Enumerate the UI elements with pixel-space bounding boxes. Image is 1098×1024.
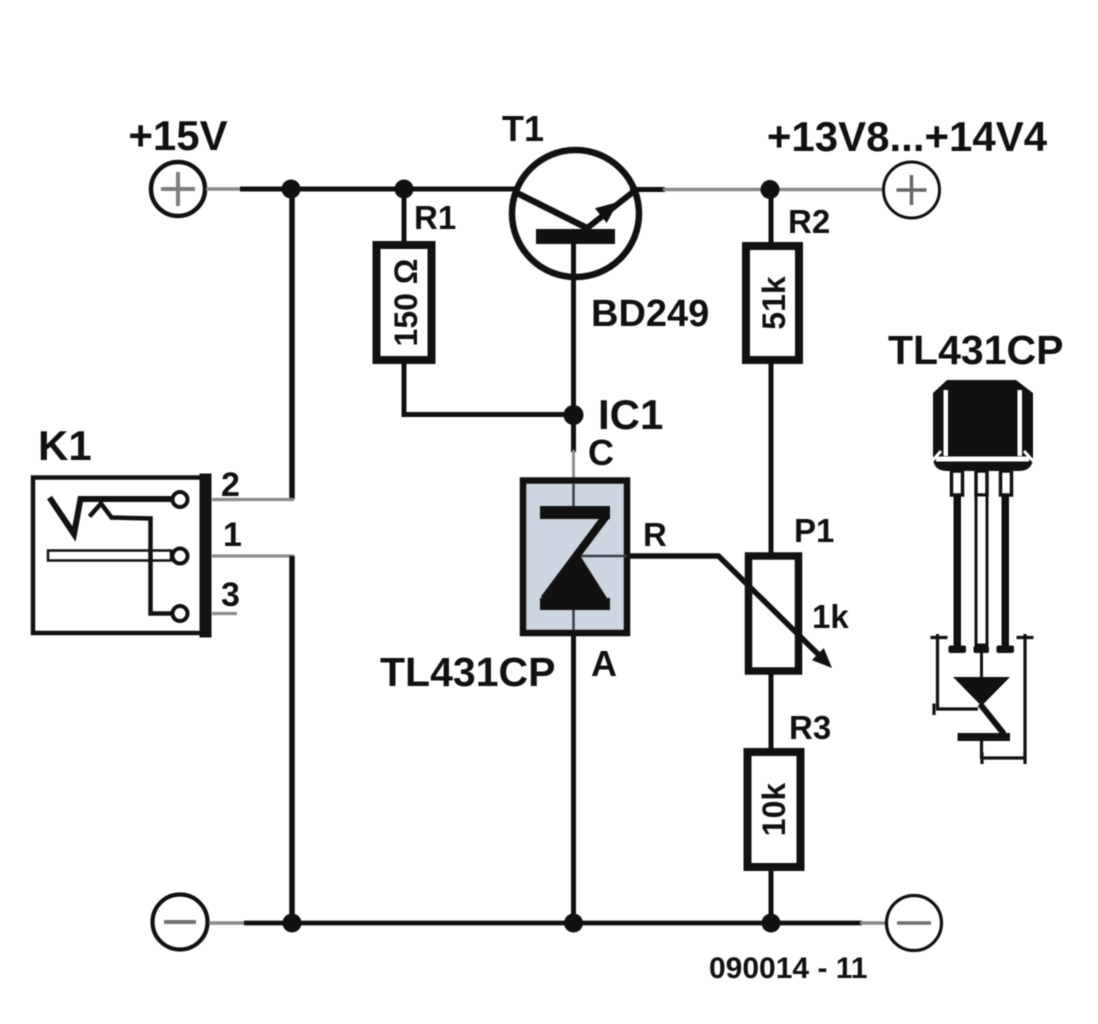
svg-text:C: C (588, 432, 614, 473)
svg-text:1k: 1k (812, 598, 849, 635)
node D junction (T1 base / R1 / IC1 cathode) (564, 405, 584, 425)
wire node D to IC1 cathode (black then gray) (571, 415, 576, 479)
node C junction (top of R2) (761, 180, 780, 199)
TL431CP package lead stubs (952, 471, 1012, 495)
minus terminal left (153, 895, 208, 950)
svg-text:P1: P1 (794, 512, 834, 549)
bottom junction at K1 column (283, 914, 302, 933)
wire K1 pin 1 to bottom rail (212, 556, 294, 923)
svg-text:+15V: +15V (128, 112, 227, 159)
wire K1 pin 2 to node A column (212, 498, 294, 501)
wire IC1 anode down to bottom rail (571, 633, 576, 923)
wire T1 base down to node D (571, 243, 576, 415)
wire T1 emitter to output (black stub then gray) (630, 187, 884, 192)
package symbol: zigzag cathode (958, 704, 1011, 759)
transistor T1 (BD249) (512, 150, 639, 277)
bottom junction at R3 (762, 914, 781, 933)
svg-text:R3: R3 (789, 709, 831, 746)
svg-text:3: 3 (221, 576, 240, 614)
+15V input terminal (128, 112, 227, 216)
wire IC1 ref output to P1 wiper (630, 556, 824, 660)
wire node C down to R2 (769, 190, 774, 247)
svg-text:TL431CP: TL431CP (380, 649, 555, 695)
svg-text:K1: K1 (38, 422, 92, 469)
bottom rail wire (209, 921, 886, 925)
svg-text:TL431CP: TL431CP (888, 327, 1063, 373)
TL431CP package lead 3 (right, solid) (997, 495, 1015, 653)
svg-text:R1: R1 (414, 199, 456, 236)
svg-text:IC1: IC1 (598, 391, 663, 438)
bottom junction at IC1 anode (564, 914, 583, 933)
wire R1 bottom to node D (404, 360, 574, 415)
wire node B down to R1 (402, 189, 407, 243)
svg-text:R2: R2 (788, 203, 830, 240)
P1 wiper arrowhead (812, 648, 832, 668)
wire R3 bottom to bottom rail (769, 867, 774, 923)
svg-text:R: R (643, 516, 667, 553)
potentiometer P1 body (749, 556, 799, 671)
svg-text:BD249: BD249 (591, 293, 709, 335)
node B junction (top of R1) (395, 180, 414, 199)
connector K1 (DC jack) (33, 474, 212, 638)
wire +15V terminal to node A (gray stub then black) (206, 187, 519, 191)
package symbol: cathode bracket (right) (982, 634, 1034, 764)
minus terminal right (887, 896, 942, 951)
svg-text:T1: T1 (502, 108, 544, 149)
package symbol: ref bracket (left) (931, 634, 979, 715)
package symbol: TL431 triangle (953, 677, 1010, 706)
TL431CP TO-92 package body (932, 380, 1033, 471)
op-amp IC1 TL431 box (523, 481, 627, 634)
wire node A down to K1 pin 2 (289, 189, 295, 499)
package symbol: anode lead line (980, 652, 983, 678)
svg-text:10k: 10k (756, 783, 792, 837)
TL431CP package lead 2 (middle, outlined) (974, 495, 990, 653)
TL431CP package lead 1 (left, solid) (949, 495, 967, 653)
svg-text:+13V8...+14V4: +13V8...+14V4 (767, 113, 1048, 160)
wire K1 pin 3 stub (212, 612, 237, 615)
wire P1 bottom to R3 top (769, 671, 774, 752)
svg-text:150 Ω: 150 Ω (388, 259, 424, 347)
svg-text:1: 1 (223, 516, 242, 554)
resistor R2 51k (746, 246, 799, 360)
svg-text:A: A (591, 643, 617, 684)
node A junction (top of K1 column) (282, 180, 301, 199)
svg-text:51k: 51k (756, 276, 792, 330)
resistor R1 150 Ohm (377, 245, 432, 360)
output + terminal (884, 162, 940, 218)
resistor R3 10k (748, 752, 801, 867)
svg-text:090014 - 11: 090014 - 11 (709, 952, 867, 985)
wire R2 bottom to P1 top (769, 360, 774, 556)
